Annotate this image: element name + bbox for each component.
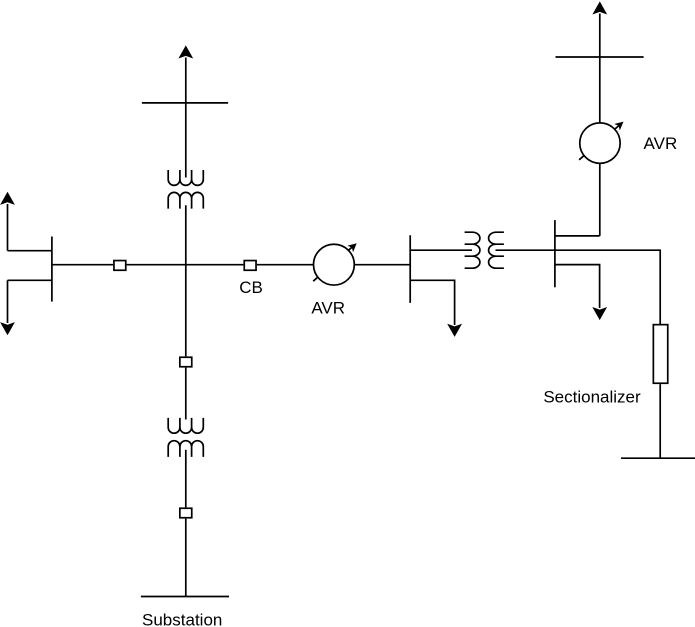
- wire: T3 secondary to sectionalizer corner: [496, 250, 661, 324]
- node: bottom-right bar: [621, 457, 695, 459]
- node: right busbar: [554, 220, 556, 287]
- switch S2 (square): [180, 357, 192, 367]
- wire: trunk from S2 to T2: [185, 368, 187, 420]
- wire: right bar bottom stub with down arrow: [555, 265, 600, 308]
- regulator U2 diagonal arrow: [579, 118, 626, 159]
- circuit breaker CB (square): [244, 261, 256, 271]
- regulator U1 diagonal arrow: [313, 240, 359, 281]
- wire: sectionalizer to ground bar: [659, 384, 661, 458]
- node: top-right crossbar: [556, 56, 644, 58]
- transformer T2 secondary winding: [168, 441, 203, 457]
- transformer T1 secondary winding: [168, 192, 203, 208]
- wire: left bar bottom stub: [8, 279, 52, 281]
- wire: top feeder shaft: [185, 58, 187, 178]
- wire: left bar top stub: [8, 250, 52, 252]
- node: middle busbar: [409, 235, 411, 303]
- svg-text:Sectionalizer: Sectionalizer: [543, 388, 641, 407]
- wire: main bus segment B: [127, 264, 244, 266]
- wire: left feeder down-arrow shaft: [7, 280, 9, 323]
- svg-text:AVR: AVR: [644, 134, 678, 153]
- switch S1 (square): [114, 261, 126, 271]
- wire: top-right feeder shaft: [599, 14, 601, 123]
- regulator U1 circle AVR: [314, 244, 355, 285]
- svg-text:Substation: Substation: [142, 611, 222, 627]
- wire: left feeder up-arrow shaft: [7, 204, 9, 251]
- transformer T3 secondary winding (horizontal): [489, 232, 504, 268]
- node: substation bar: [141, 596, 229, 598]
- node: top source crossbar: [142, 102, 228, 104]
- wire: main bus segment D: [354, 264, 410, 266]
- svg-text:CB: CB: [239, 278, 263, 297]
- wire: main bus segment A: [52, 264, 113, 266]
- arrow: left feeder down arrowhead: [0, 322, 15, 335]
- wire: middle bar bottom stub: [410, 280, 454, 325]
- arrow: top-right feeder arrowhead: [592, 1, 607, 14]
- arrow: left feeder up arrowhead: [0, 192, 15, 205]
- wire: right bar top stub: [555, 235, 600, 237]
- sectionalizer body (rectangle): [653, 325, 667, 384]
- node: left busbar: [51, 237, 53, 302]
- arrow: top feeder arrowhead: [178, 45, 193, 58]
- wire: U2 to right bar stub: [599, 163, 601, 236]
- transformer T1 primary winding: [168, 170, 203, 185]
- wire: middle bar top stub to T3: [410, 249, 472, 251]
- wire: main bus segment C: [257, 264, 314, 266]
- switch S3 (square): [180, 508, 192, 518]
- wire: trunk from S3 to substation bar: [185, 519, 187, 597]
- regulator U2 circle AVR: [580, 123, 620, 163]
- arrow: right load down arrowhead: [592, 307, 607, 320]
- wire: trunk from T1 to switch S2: [185, 205, 187, 356]
- wire: trunk from T2 to switch S3: [185, 450, 187, 508]
- transformer T2 primary winding: [168, 418, 203, 433]
- transformer T3 primary winding (horizontal): [465, 232, 480, 268]
- svg-text:AVR: AVR: [311, 299, 345, 318]
- arrow: middle load down arrowhead: [447, 324, 462, 337]
